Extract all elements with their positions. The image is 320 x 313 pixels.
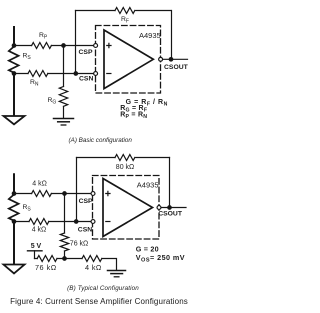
wire: RG branch down — [63, 46, 65, 119]
wire: feedback top run — [77, 157, 170, 159]
wire: bottom row — [35, 259, 117, 271]
svg-text:CSP: CSP — [79, 49, 93, 56]
wire: CSP line from bus to amp — [14, 193, 93, 195]
resistor 76k bottom — [37, 256, 57, 262]
wire: output to CSOUT — [163, 58, 187, 60]
wire: left supply bus (thick) — [13, 27, 15, 116]
svg-text:CSN: CSN — [79, 76, 93, 83]
wire: left supply bus (thick) — [13, 174, 15, 264]
resistor RS (thick, in bus) — [9, 47, 19, 73]
pin CSN — [94, 72, 98, 76]
wire: feedback top run — [76, 10, 172, 12]
node: feedback tap on CSN — [74, 219, 79, 224]
node: feedback tap on CSN — [73, 71, 78, 76]
svg-text:76 kΩ: 76 kΩ — [35, 263, 57, 272]
wire: 5V stub — [34, 251, 36, 259]
pin CSOUT — [157, 206, 161, 210]
op-amp minus input mark — [106, 221, 110, 223]
svg-text:Figure 4: Current Sense Amplif: Figure 4: Current Sense Amplifier Config… — [10, 297, 188, 306]
wire: divider branch down — [64, 194, 66, 259]
svg-text:4 kΩ: 4 kΩ — [85, 263, 102, 272]
svg-text:CSOUT: CSOUT — [158, 211, 183, 218]
pin CSN — [91, 220, 95, 224]
node: CSP to RG junction — [61, 43, 66, 48]
pin CSP — [94, 44, 98, 48]
node: bus bottom junction — [12, 219, 17, 224]
node: bus top junction — [12, 191, 17, 196]
svg-text:76 kΩ: 76 kΩ — [70, 240, 88, 247]
node: CSP divider junction — [62, 191, 67, 196]
node: bus to RN junction — [12, 71, 17, 76]
wire: feedback down to output — [171, 11, 173, 60]
node: divider bottom junction — [62, 256, 67, 261]
op-amp plus input mark — [106, 191, 110, 195]
op-amp U2 triangle — [103, 179, 153, 237]
svg-text:A4935: A4935 — [139, 31, 161, 40]
svg-text:80 kΩ: 80 kΩ — [116, 164, 134, 171]
resistor 80k feedback — [115, 155, 135, 161]
wire: CSN line from bus to amp — [14, 221, 93, 223]
svg-text:CSP: CSP — [79, 198, 93, 205]
node CSOUT junction — [169, 57, 174, 62]
resistor RF — [115, 8, 135, 14]
node: bus to RP junction — [12, 43, 17, 48]
pin CSOUT — [159, 57, 163, 61]
svg-text:(A) Basic configuration: (A) Basic configuration — [69, 137, 133, 144]
wire: feedback down to output — [169, 158, 171, 208]
op-amp minus input mark — [107, 73, 111, 75]
supply 5V bar — [28, 250, 43, 252]
ground: arrow ground under bus — [4, 116, 25, 124]
resistor 4k middle — [29, 219, 49, 225]
svg-text:A4935: A4935 — [137, 181, 159, 190]
resistor RN — [28, 71, 48, 77]
ground: arrow ground under bus — [4, 265, 25, 274]
svg-text:(B) Typical Configuration: (B) Typical Configuration — [67, 285, 139, 292]
svg-text:4 kΩ: 4 kΩ — [32, 227, 47, 234]
svg-text:CSOUT: CSOUT — [164, 64, 189, 71]
resistor 76k vertical — [60, 233, 68, 251]
op-amp U2 dashed package box — [93, 176, 160, 240]
op-amp U1 triangle — [104, 30, 153, 89]
svg-text:CSN: CSN — [78, 227, 92, 234]
pin CSP — [91, 192, 95, 196]
resistor 4k bottom — [82, 256, 102, 262]
op-amp U1 dashed package box — [96, 26, 161, 94]
wire: CSN line from bus to amp — [14, 73, 96, 75]
wire: feedback left riser — [75, 11, 77, 74]
op-amp plus input mark — [107, 43, 111, 47]
resistor RP — [32, 43, 52, 49]
wire: output to CSOUT — [161, 207, 186, 209]
resistor RG — [59, 87, 67, 107]
wire: CSP line from bus to amp — [14, 45, 96, 47]
wire: feedback left riser — [76, 158, 78, 222]
resistor RS (thick, in bus) — [9, 195, 19, 221]
ground: earth ground bottom right — [108, 270, 126, 272]
ground: earth ground under RG — [54, 118, 74, 120]
svg-text:5 V: 5 V — [31, 243, 42, 250]
svg-text:4 kΩ: 4 kΩ — [32, 181, 47, 188]
node CSOUT junction — [167, 205, 172, 210]
resistor 4k top — [32, 191, 52, 197]
